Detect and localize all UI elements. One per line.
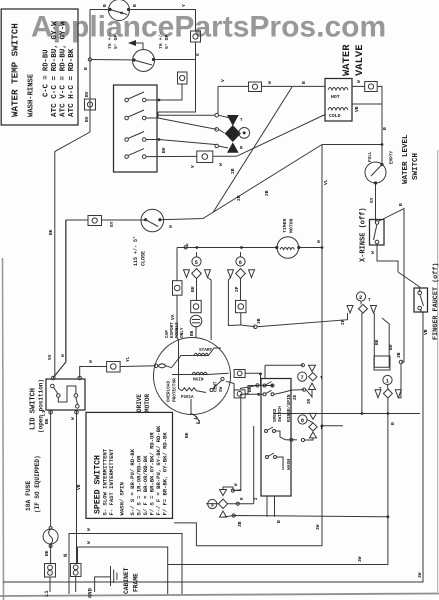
start wire bbox=[172, 348, 221, 367]
wire 6 bottom run bbox=[241, 325, 256, 327]
svg-text:B: B bbox=[301, 81, 307, 84]
junction bbox=[257, 393, 260, 396]
wire mech riser 2 bbox=[253, 426, 255, 504]
wire sel3 top bbox=[223, 487, 242, 491]
svg-text:W: W bbox=[86, 541, 92, 544]
switch S3 contact bbox=[142, 138, 146, 142]
T2 terminal right bbox=[152, 58, 155, 61]
motor entry node bbox=[154, 364, 158, 368]
svg-text:AppliancePartsPros.com: AppliancePartsPros.com bbox=[31, 11, 386, 44]
lid pivot 1 bbox=[57, 394, 61, 398]
wire to level riser bbox=[377, 86, 382, 163]
lid out left bbox=[50, 411, 52, 528]
svg-text:(IF SO EQUIPPED): (IF SO EQUIPPED) bbox=[34, 455, 41, 513]
wire right rail b bbox=[401, 248, 404, 363]
switch S4 blade bbox=[128, 149, 144, 156]
wire hot feed vertical bbox=[217, 86, 219, 113]
wire sel2 chain bbox=[360, 301, 362, 305]
svg-text:SWITCH: SWITCH bbox=[278, 406, 283, 422]
svg-text:2B: 2B bbox=[230, 168, 236, 174]
sel5 left triangle bbox=[184, 270, 190, 278]
svg-text:B: B bbox=[102, 4, 108, 7]
tm terminal left bbox=[275, 246, 278, 249]
wire sel1 right leg bbox=[398, 364, 401, 398]
sel3 wire right bbox=[228, 503, 254, 505]
sel1 diamond bbox=[383, 389, 392, 398]
circled 5 bbox=[192, 257, 201, 266]
junction bbox=[321, 424, 324, 427]
wire sel8 chain bbox=[307, 420, 313, 423]
mech wire out bbox=[274, 390, 304, 395]
wire CO to corner bbox=[53, 220, 88, 378]
svg-text:3W: 3W bbox=[417, 572, 423, 578]
wire sel2 down right bbox=[374, 313, 389, 367]
T2 terminal left bbox=[132, 58, 135, 61]
connector CO1 bbox=[191, 31, 201, 42]
svg-text:5° OP: 5° OP bbox=[113, 34, 119, 49]
wire sel3 bottom bus bbox=[223, 516, 388, 518]
svg-text:10A FUSE: 10A FUSE bbox=[25, 481, 32, 511]
mech sw1 pivot bbox=[263, 384, 266, 387]
svg-text:W: W bbox=[218, 163, 224, 166]
console bus wire bbox=[177, 247, 276, 249]
thermostat T2 body bbox=[133, 50, 155, 72]
svg-text:2B: 2B bbox=[294, 394, 298, 400]
svg-text:W: W bbox=[86, 528, 92, 531]
sel7 triangle down bbox=[309, 365, 316, 371]
node cluster mid bbox=[215, 128, 219, 132]
junction bbox=[381, 143, 384, 146]
svg-text:BK: BK bbox=[48, 229, 54, 235]
x-rinse blade bbox=[374, 224, 378, 240]
wire 6 to connector bbox=[240, 279, 242, 301]
stub to triangle down bbox=[219, 115, 231, 118]
svg-text:GND: GND bbox=[87, 587, 94, 598]
svg-text:ATC C-C = RD-BU, GY-W: ATC C-C = RD-BU, GY-W bbox=[51, 21, 59, 117]
wire left rail top bbox=[55, 10, 110, 378]
wire sel2 down left bbox=[361, 313, 363, 414]
wire level branch bbox=[322, 144, 381, 146]
svg-text:ATC V-C = RD-BU, GY-W: ATC V-C = RD-BU, GY-W bbox=[60, 21, 68, 117]
junction bbox=[270, 384, 273, 387]
mech sw4 wire bbox=[277, 457, 284, 470]
junction bbox=[158, 99, 161, 102]
svg-text:(open position): (open position) bbox=[38, 379, 45, 433]
node bbox=[49, 411, 53, 415]
overload heater bbox=[182, 388, 196, 391]
junction bbox=[321, 246, 324, 249]
lid contact 1 bbox=[51, 384, 55, 388]
valve aux wire bbox=[352, 103, 382, 105]
lid internal wiring bbox=[58, 386, 76, 402]
overload wire bbox=[197, 391, 207, 393]
thermostat T3 body bbox=[141, 209, 164, 232]
svg-text:3B: 3B bbox=[256, 318, 262, 324]
mech sw2 blade bbox=[266, 390, 272, 394]
capacitor body bbox=[190, 315, 202, 327]
sel8 diamond bbox=[309, 423, 317, 431]
connector O1 bbox=[178, 72, 188, 84]
fuse node bottom bbox=[49, 545, 52, 548]
wire CO1 down bbox=[158, 42, 196, 112]
sel3 triangle up bbox=[220, 511, 227, 517]
svg-text:F/ F= BR-BK, GY-BK/ RD-BK: F/ F= BR-BK, GY-BK/ RD-BK bbox=[162, 432, 169, 516]
switch S4 contact bbox=[142, 155, 146, 159]
ff terminal top bbox=[418, 291, 422, 295]
svg-text:5V: 5V bbox=[47, 354, 53, 360]
svg-text:V: V bbox=[190, 165, 196, 168]
svg-text:EMPTY: EMPTY bbox=[390, 150, 395, 164]
sel6 right triangle bbox=[249, 270, 255, 278]
node bbox=[303, 388, 306, 391]
switch S4 pivot bbox=[125, 155, 129, 159]
svg-text:BU: BU bbox=[388, 344, 394, 350]
mech sw3 contact bbox=[273, 430, 276, 433]
switch S2 contact bbox=[142, 116, 146, 120]
wire speedbox link bbox=[174, 523, 196, 546]
svg-text:2R: 2R bbox=[236, 195, 242, 201]
sel2 left triangle bbox=[347, 306, 353, 314]
svg-text:B: B bbox=[390, 422, 396, 425]
svg-text:3W: 3W bbox=[357, 556, 363, 562]
ff terminal bottom bbox=[418, 306, 422, 310]
svg-text:MOTOR: MOTOR bbox=[144, 394, 151, 412]
wire L1 to frame bbox=[49, 577, 51, 592]
T2 actuator hook bbox=[136, 43, 143, 50]
sel3 wire mid bbox=[206, 503, 219, 505]
svg-text:BK: BK bbox=[374, 339, 380, 345]
main wire bbox=[172, 373, 229, 374]
mech sw4 blade bbox=[268, 453, 274, 457]
wire hot feed 2 bbox=[262, 85, 326, 87]
svg-text:3W: 3W bbox=[315, 524, 321, 530]
sel5 right triangle bbox=[205, 270, 211, 278]
T1 terminal left bbox=[108, 8, 111, 11]
svg-text:DRIVE: DRIVE bbox=[136, 394, 143, 412]
circled 1 bbox=[383, 375, 392, 384]
lid right feed bbox=[80, 367, 107, 379]
wire sel7 riser bbox=[264, 365, 266, 378]
svg-text:3B: 3B bbox=[396, 352, 402, 358]
wire cap to motor bbox=[195, 327, 197, 338]
svg-text:BK: BK bbox=[44, 418, 50, 424]
timer motor coil bbox=[280, 248, 294, 250]
svg-text:V: V bbox=[220, 79, 226, 82]
cent contact bbox=[221, 377, 224, 380]
wire sel8 down bbox=[305, 438, 313, 440]
node on rail bbox=[88, 58, 91, 61]
svg-text:BU: BU bbox=[190, 286, 196, 292]
mech sw2 pivot bbox=[263, 393, 266, 396]
svg-text:F- FAST INTERMITTENT: F- FAST INTERMITTENT bbox=[108, 448, 115, 515]
cabinet outer box bbox=[69, 534, 182, 595]
wire into sel2 bbox=[257, 313, 348, 327]
svg-text:B: B bbox=[398, 203, 404, 206]
switch S3 pivot bbox=[125, 138, 129, 142]
svg-text:X-RINSE (off): X-RINSE (off) bbox=[360, 207, 368, 262]
wire S2 link bbox=[146, 112, 158, 118]
terminal N bbox=[71, 564, 82, 577]
wire S3 to cluster bbox=[146, 140, 217, 145]
svg-text:SW: SW bbox=[219, 386, 224, 392]
cabinet inner box bbox=[78, 547, 168, 594]
node bbox=[75, 411, 79, 415]
svg-text:N: N bbox=[62, 554, 69, 557]
svg-text:W: W bbox=[168, 225, 174, 228]
svg-text:ONLY: ONLY bbox=[180, 327, 185, 338]
wire S4 diagonal to valve bbox=[213, 115, 325, 157]
mech sw1 contact bbox=[271, 384, 274, 387]
gnd stub bbox=[95, 577, 111, 592]
ff blade bbox=[420, 294, 424, 306]
svg-text:BK: BK bbox=[189, 330, 195, 336]
switch S3 blade bbox=[128, 132, 144, 139]
wire S4 out bbox=[146, 155, 197, 157]
svg-text:VB: VB bbox=[76, 484, 82, 490]
svg-text:CENT: CENT bbox=[214, 381, 219, 392]
svg-text:CABINET: CABINET bbox=[123, 567, 130, 594]
svg-text:2P: 2P bbox=[234, 286, 240, 292]
circled 7 bbox=[298, 372, 307, 381]
mech sw3 pivot bbox=[265, 430, 268, 433]
finger faucet box bbox=[414, 288, 428, 312]
svg-text:WATER TEMP SWITCH: WATER TEMP SWITCH bbox=[10, 23, 21, 117]
node cluster top bbox=[215, 113, 219, 117]
wire motor right mid bbox=[226, 381, 234, 393]
wire mech risers bbox=[235, 394, 241, 490]
connector CO valve bbox=[365, 82, 378, 92]
mech feed upper bbox=[240, 385, 258, 388]
svg-text:Y: Y bbox=[181, 4, 187, 7]
x-rinse terminal top bbox=[375, 221, 379, 225]
sel3 triangle down bbox=[220, 490, 227, 496]
wire T1 to corner bbox=[129, 10, 196, 32]
switch S2 pivot bbox=[125, 116, 129, 120]
svg-text:C-C = RD-BU: C-C = RD-BU bbox=[43, 50, 51, 97]
svg-text:BK: BK bbox=[44, 550, 50, 556]
svg-text:G: G bbox=[195, 53, 201, 56]
temp contact diamond bbox=[225, 125, 241, 142]
wire tm to rail bbox=[299, 247, 322, 249]
svg-text:OVERLOAD: OVERLOAD bbox=[167, 381, 172, 402]
cold coil bbox=[328, 108, 348, 111]
svg-text:WASH: WASH bbox=[286, 459, 292, 470]
wire row stub bbox=[157, 114, 215, 116]
T2 blade bbox=[134, 60, 152, 65]
WLS terminal bottom bbox=[374, 181, 377, 184]
svg-text:RINSE/SPIN: RINSE/SPIN bbox=[286, 394, 292, 422]
svg-text:BV: BV bbox=[84, 91, 90, 97]
junction bbox=[240, 246, 243, 249]
svg-text:7: 7 bbox=[300, 374, 303, 381]
svg-text:3B: 3B bbox=[237, 521, 243, 527]
x-rinse branch wire bbox=[379, 209, 404, 248]
wire fuse to L1 bbox=[50, 544, 52, 563]
sel7 triangle up bbox=[309, 383, 316, 390]
lid node right bbox=[78, 376, 82, 380]
lid blade 1 bbox=[53, 387, 58, 394]
T2 actuator arrow bbox=[128, 40, 136, 46]
WLS terminal top bbox=[380, 163, 383, 166]
wire x-rinse down bbox=[377, 244, 398, 272]
svg-text:W: W bbox=[370, 251, 376, 254]
horizontal bus 413 bbox=[273, 413, 420, 415]
switch S1 contact bbox=[142, 98, 146, 102]
svg-text:L1: L1 bbox=[41, 410, 47, 416]
svg-text:PROTECTOR: PROTECTOR bbox=[173, 378, 178, 402]
hot coil bbox=[328, 88, 348, 91]
svg-text:B: B bbox=[382, 127, 388, 130]
motor inner hook bbox=[158, 364, 172, 368]
svg-text:2R: 2R bbox=[340, 319, 346, 325]
svg-text:WASH/ SPIN: WASH/ SPIN bbox=[119, 482, 126, 515]
node bbox=[301, 438, 304, 441]
sel8 triangle down bbox=[310, 413, 317, 419]
connector box u bbox=[374, 356, 390, 370]
stub to diamond bbox=[219, 129, 225, 133]
connector CO T3 bbox=[88, 216, 102, 226]
switch S1 pivot bbox=[125, 98, 129, 102]
sel2 right triangle bbox=[371, 306, 377, 314]
x-rinse terminal bottom bbox=[375, 240, 379, 244]
svg-text:WASH-RINSE: WASH-RINSE bbox=[28, 73, 36, 117]
svg-text:BV: BV bbox=[84, 116, 90, 122]
wire WLS down bbox=[375, 183, 377, 223]
sel1 right triangle bbox=[395, 390, 401, 398]
svg-text:VA: VA bbox=[170, 314, 176, 320]
svg-text:W: W bbox=[70, 417, 76, 420]
wire 6 down bbox=[240, 313, 242, 325]
valve out wire bbox=[352, 85, 365, 87]
water temp switch legend box bbox=[1, 9, 78, 125]
wire stub bbox=[322, 425, 343, 427]
scan edge bottom bbox=[0, 594, 439, 597]
junction bbox=[184, 246, 187, 249]
wire 6 chain bbox=[240, 252, 242, 257]
motor top entry left bbox=[179, 340, 183, 391]
water valve box bbox=[325, 79, 352, 122]
sel1 left triangle bbox=[375, 390, 381, 398]
wire 5 chain bbox=[196, 252, 198, 257]
motor bottom exit bbox=[190, 399, 192, 415]
mech drop wire 1 bbox=[266, 496, 268, 517]
wire sel1 to bus bbox=[387, 398, 389, 414]
WLS blade bbox=[371, 165, 382, 177]
connector CO hot bbox=[249, 82, 262, 92]
wire T2 right bbox=[154, 59, 196, 61]
wire sel7 down bbox=[306, 390, 312, 398]
T3 terminal left bbox=[144, 218, 147, 221]
svg-text:GY: GY bbox=[369, 197, 375, 203]
connector CO console bbox=[173, 281, 183, 296]
lid branch diagonal bbox=[53, 220, 65, 378]
temp contact triangle up bbox=[227, 142, 239, 152]
thermostat T1 body bbox=[109, 0, 130, 21]
switch S2 blade bbox=[128, 110, 144, 117]
wire T3 left bbox=[102, 219, 146, 221]
junction bbox=[195, 246, 198, 249]
main mid rail bbox=[196, 145, 322, 546]
fuse node top bbox=[49, 527, 52, 530]
svg-text:76 +/-: 76 +/- bbox=[158, 32, 164, 49]
mech drop wire 2 bbox=[274, 496, 276, 517]
svg-text:W: W bbox=[356, 80, 362, 83]
wire T2 left bbox=[92, 59, 135, 62]
junction bbox=[259, 373, 262, 376]
node bbox=[290, 438, 293, 441]
wire to sel8 bbox=[286, 439, 298, 441]
svg-text:HOT: HOT bbox=[331, 94, 340, 100]
svg-text:GY: GY bbox=[109, 221, 115, 227]
svg-text:WATER LEVEL: WATER LEVEL bbox=[402, 134, 410, 184]
mech sw4 contact bbox=[274, 456, 277, 459]
svg-text:YL: YL bbox=[125, 356, 131, 362]
svg-text:2B: 2B bbox=[264, 190, 270, 196]
svg-text:ATC H-C = RD-BK: ATC H-C = RD-BK bbox=[68, 48, 76, 117]
circled 2 bbox=[356, 292, 365, 301]
lid switch box bbox=[46, 379, 85, 410]
stub to triangle up bbox=[219, 146, 229, 148]
wire hot feed bbox=[218, 85, 249, 87]
svg-text:W: W bbox=[60, 354, 66, 357]
tm terminal right bbox=[297, 246, 300, 249]
svg-text:76 +/-: 76 +/- bbox=[107, 32, 113, 49]
T3 terminal right bbox=[158, 218, 161, 221]
ground symbol bbox=[111, 566, 117, 586]
svg-text:COLD: COLD bbox=[329, 113, 341, 119]
console left rail 2 bbox=[177, 295, 179, 340]
svg-text:FINGER FAUCET (off): FINGER FAUCET (off) bbox=[432, 263, 439, 341]
sel8 triangle up bbox=[310, 432, 317, 438]
svg-text:BK: BK bbox=[184, 432, 190, 438]
wire tri6 left leg bbox=[228, 278, 240, 326]
fuse body bbox=[43, 529, 58, 544]
svg-text:2: 2 bbox=[359, 294, 362, 301]
svg-text:W: W bbox=[267, 81, 273, 84]
wire lid to motor bbox=[120, 365, 156, 368]
speed switch mech box bbox=[261, 379, 291, 497]
wire S2 to cluster bbox=[158, 118, 217, 129]
water level switch body bbox=[365, 162, 386, 183]
connector CO 6 bbox=[236, 300, 247, 312]
sel6 left triangle bbox=[228, 270, 234, 278]
svg-text:SWITCH: SWITCH bbox=[412, 153, 420, 180]
node bbox=[301, 364, 304, 367]
node bbox=[254, 325, 258, 329]
cent switch blade bbox=[213, 380, 223, 389]
T1 blade bbox=[110, 10, 127, 15]
mech sw4 pivot bbox=[266, 456, 269, 459]
wire tri5 right leg bbox=[208, 278, 212, 341]
junction bbox=[387, 412, 390, 415]
mech sw2 contact bbox=[271, 393, 274, 396]
node cluster low bbox=[215, 144, 219, 148]
x-rinse switch box bbox=[370, 220, 385, 246]
lid node left bbox=[51, 376, 55, 380]
svg-text:P201A: P201A bbox=[181, 396, 194, 400]
sel7 diamond bbox=[309, 373, 317, 381]
svg-text:L1: L1 bbox=[43, 590, 50, 597]
wire down to 564 bbox=[168, 414, 388, 565]
svg-text:VALVE: VALVE bbox=[354, 44, 366, 76]
circled 8 bbox=[298, 415, 307, 424]
svg-text:B: B bbox=[132, 4, 138, 7]
connector CO lid bbox=[107, 362, 121, 373]
motor ground arrow bbox=[191, 414, 200, 424]
drive motor body bbox=[154, 338, 231, 415]
svg-text:5° OP: 5° OP bbox=[164, 34, 170, 49]
timer switch bank box bbox=[114, 85, 158, 172]
